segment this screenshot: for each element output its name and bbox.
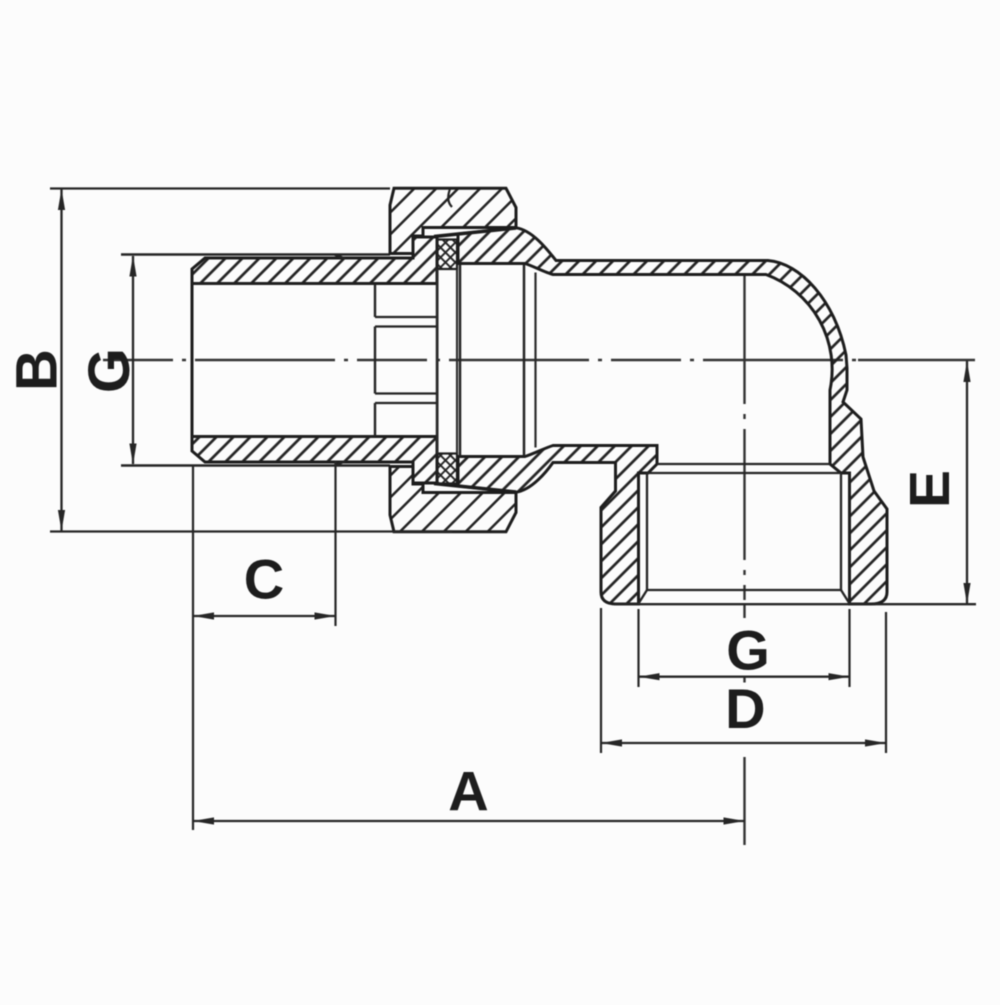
svg-text:D: D: [725, 677, 765, 740]
gasket upper (crosshatched): [438, 240, 458, 270]
dimension G left line: [132, 256, 134, 464]
dimension C line: [193, 615, 336, 617]
female thread crest right: [840, 473, 842, 590]
tailpiece internal step horizontals: [375, 317, 437, 403]
tailpiece left end face: [191, 269, 194, 451]
gasket lower (crosshatched): [438, 454, 458, 484]
dimension B extension lines: [50, 189, 452, 532]
dimension B line: [60, 189, 62, 531]
dimension A line: [193, 820, 745, 822]
label G bottom: [726, 628, 770, 672]
union nut lower block (hatched): [390, 467, 516, 532]
tailpiece bore lines: [192, 284, 375, 437]
label D: [724, 688, 767, 730]
horizontal centerline: [103, 359, 858, 361]
tailpiece internal step verticals: [374, 284, 376, 436]
tailpiece lower wall (hatched): [192, 437, 437, 484]
male thread crest line top: [121, 255, 390, 259]
tailpiece end face line: [436, 237, 439, 483]
gasket bore edges: [438, 269, 458, 454]
outlet mouth chamfer: [639, 590, 850, 604]
svg-text:G: G: [726, 619, 770, 682]
union nut upper block (hatched): [390, 188, 516, 253]
vertical centerline of outlet: [743, 273, 745, 600]
body internal shoulder line: [534, 273, 536, 448]
male thread crest line bottom: [121, 462, 390, 466]
svg-text:A: A: [448, 760, 488, 823]
dimension D extension lines: [601, 608, 886, 753]
dimension G bottom extension lines: [639, 609, 850, 687]
tailpiece upper wall (hatched): [192, 237, 437, 284]
nut ceiling thick line top: [434, 228, 516, 237]
svg-text:C: C: [244, 548, 284, 611]
female thread crest left: [646, 473, 648, 590]
dimension C extension lines: [193, 461, 336, 830]
elbow body lower-left wall and outlet left wall (hatched): [458, 446, 657, 605]
elbow body upper+right wall (hatched): [458, 228, 887, 604]
svg-text:B: B: [5, 349, 70, 391]
svg-text:E: E: [898, 470, 962, 508]
svg-text:G: G: [77, 348, 142, 393]
dimension G bottom line: [639, 676, 850, 678]
dimension E extension line bottom: [614, 603, 976, 605]
female thread end faces: [647, 464, 841, 473]
nut ceiling thick line bottom: [434, 484, 516, 493]
body union face edges: [460, 265, 524, 456]
dimension D line: [601, 742, 886, 744]
dimension E line: [966, 361, 968, 604]
nut top face notch: [448, 189, 452, 207]
